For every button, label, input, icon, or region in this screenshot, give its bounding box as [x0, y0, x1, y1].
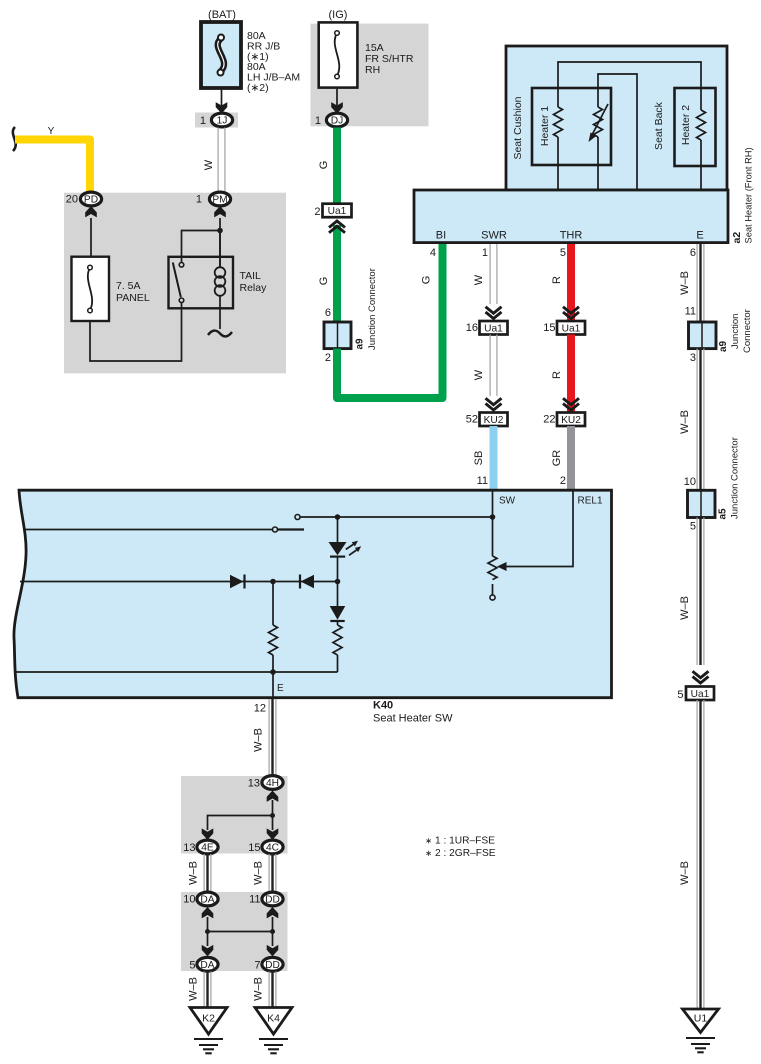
connector PD	[80, 192, 101, 206]
svg-text:2: 2	[560, 475, 566, 487]
svg-text:13: 13	[248, 778, 260, 790]
connector box Ua1 (5)	[686, 687, 714, 701]
wire W SWR to Ua1	[489, 244, 491, 304]
wire W-B 4C to DD	[268, 854, 270, 894]
relay switch blade	[173, 263, 181, 298]
svg-text:W–B: W–B	[679, 410, 691, 434]
svg-text:Junction Connector: Junction Connector	[730, 437, 741, 519]
LED emission arrows	[346, 544, 354, 549]
svg-text:Seat Back: Seat Back	[653, 101, 665, 150]
wire W-B a5 to Ua1	[696, 518, 698, 666]
resistor R1	[269, 625, 278, 655]
svg-text:3: 3	[690, 352, 696, 364]
svg-text:4E: 4E	[201, 843, 214, 854]
wire fuse bottom to relay switch	[90, 302, 182, 361]
svg-text:11: 11	[249, 894, 260, 906]
SECTION H: bottom connectors	[183, 699, 495, 1053]
svg-text:RH: RH	[365, 64, 380, 76]
svg-text:W: W	[473, 369, 485, 380]
svg-text:52: 52	[466, 414, 478, 426]
svg-text:W–B: W–B	[253, 977, 265, 1001]
wire R THR to Ua1	[567, 244, 575, 321]
svg-text:THR: THR	[560, 230, 583, 242]
arrow into 1J	[216, 102, 228, 113]
svg-text:Heater 2: Heater 2	[680, 105, 692, 145]
wire switch feed	[24, 529, 273, 531]
arrow into DD	[267, 907, 279, 918]
junction dot	[270, 813, 275, 818]
wire LED cathode	[337, 557, 339, 582]
svg-text:15: 15	[248, 842, 260, 854]
svg-text:7: 7	[254, 959, 260, 971]
svg-text:Junction: Junction	[730, 314, 741, 349]
svg-text:DJ: DJ	[331, 116, 343, 127]
wire branch to 4E	[208, 816, 273, 831]
wire GR KU2 to K40	[567, 426, 575, 490]
svg-text:W–B: W–B	[679, 861, 691, 885]
svg-text:11: 11	[477, 475, 488, 487]
svg-text:K2: K2	[202, 1013, 215, 1025]
wire PD to PANEL fuse	[90, 218, 92, 257]
break squiggle	[13, 127, 16, 151]
SECTION G: K40 seat heater switch	[14, 490, 612, 724]
svg-text:(IG): (IG)	[329, 9, 348, 21]
wire R Ua1 to KU2	[567, 335, 575, 413]
K40 body with torn left edge	[14, 490, 612, 698]
1J gray strip	[195, 113, 238, 128]
body squiggle	[208, 331, 232, 337]
svg-text:12: 12	[254, 703, 266, 715]
svg-text:PANEL: PANEL	[116, 292, 150, 304]
wire LED anode	[337, 517, 339, 542]
harness chevrons down	[486, 398, 502, 410]
wire E to pin 12	[272, 672, 274, 697]
connector box Ua1 (16)	[480, 321, 508, 335]
relay switch contacts	[179, 263, 184, 268]
svg-text:Heater 1: Heater 1	[539, 106, 551, 146]
svg-text:KU2: KU2	[484, 415, 504, 426]
svg-text:DA: DA	[200, 960, 214, 971]
connector box KU2 (22)	[557, 413, 585, 427]
variable resistor SW	[488, 556, 497, 580]
svg-text:1: 1	[200, 115, 206, 127]
arrow into PD	[85, 206, 97, 217]
wire W-B a9 to a5	[696, 349, 698, 491]
svg-text:22: 22	[543, 414, 555, 426]
svg-text:DD: DD	[265, 895, 280, 906]
junction dot DD	[270, 929, 275, 934]
svg-text:Seat Heater SW: Seat Heater SW	[373, 713, 453, 725]
svg-text:W–B: W–B	[679, 596, 691, 620]
wire below variable resistor	[492, 584, 494, 595]
svg-text:W: W	[473, 274, 485, 285]
connector DD (11)	[262, 892, 283, 906]
ground symbol	[686, 1037, 715, 1039]
svg-text:GR: GR	[551, 450, 563, 467]
svg-text:4H: 4H	[266, 778, 279, 789]
relay coil	[219, 231, 221, 269]
svg-text:4C: 4C	[266, 843, 279, 854]
diode D2	[299, 575, 301, 589]
junction connector a9 box	[324, 322, 351, 349]
svg-text:W–B: W–B	[679, 271, 691, 295]
seat heater upper body	[506, 46, 727, 190]
junction dot diode bus	[270, 579, 276, 585]
LED diode	[329, 542, 347, 555]
svg-text:a2: a2	[731, 232, 743, 244]
svg-text:6: 6	[325, 307, 331, 319]
svg-text:W–B: W–B	[188, 977, 200, 1001]
wire G Ua1 to junction connector a9	[333, 225, 341, 322]
svg-text:SB: SB	[473, 451, 485, 466]
svg-text:G: G	[421, 276, 433, 285]
relay box TAIL	[169, 257, 234, 309]
harness chevrons down	[486, 307, 502, 319]
IG fuse gray box	[311, 24, 429, 127]
connector box Ua1	[323, 204, 352, 218]
svg-text:20: 20	[66, 194, 78, 206]
connector DD (7)	[262, 957, 283, 971]
ground K4 triangle	[255, 1008, 292, 1035]
heater 2 box	[675, 88, 716, 166]
svg-text:W–B: W–B	[253, 861, 265, 885]
svg-text:W–B: W–B	[253, 728, 265, 752]
harness chevrons down	[563, 398, 579, 410]
svg-text:Ua1: Ua1	[328, 206, 347, 217]
svg-text:4: 4	[430, 247, 436, 259]
svg-text:E: E	[277, 683, 284, 694]
svg-text:2: 2	[325, 352, 331, 364]
connector box Ua1 (15)	[557, 321, 585, 335]
connector box KU2 (52)	[480, 413, 508, 427]
connector 1J	[211, 113, 232, 127]
open terminal circle	[490, 595, 495, 600]
wire G a9 to BI	[337, 243, 443, 398]
wire W-B DD to K4	[268, 972, 270, 1009]
SECTION F: right ground column	[677, 244, 753, 1052]
junction dot E	[270, 669, 276, 675]
svg-text:1: 1	[196, 194, 202, 206]
PANEL/TAIL relay gray box	[64, 193, 286, 374]
svg-text:1: 1	[482, 247, 488, 259]
svg-text:Ua1: Ua1	[484, 324, 503, 335]
variable resistor arrow	[497, 562, 507, 571]
svg-text:2: 2	[314, 206, 320, 218]
connector DJ	[326, 113, 347, 127]
variable resistor arrow	[592, 104, 608, 135]
harness chevrons up	[329, 221, 345, 233]
variable resistor	[594, 107, 603, 137]
arrow into PM	[214, 206, 226, 217]
svg-text:11: 11	[685, 306, 696, 318]
wire switch top to coil line	[182, 231, 221, 264]
svg-text:10: 10	[684, 476, 696, 488]
wire switch bus	[300, 516, 493, 518]
fuse symbol 15A	[335, 33, 340, 76]
junction connector a5 box	[688, 490, 716, 517]
SECTION E: middle wires	[466, 244, 585, 490]
connector PM	[209, 192, 230, 206]
wire second bus	[598, 74, 637, 189]
svg-text:SW: SW	[499, 496, 516, 507]
switch blade	[278, 528, 304, 530]
switch pivot circle	[273, 527, 278, 532]
wire 4H to junction	[272, 800, 274, 830]
svg-text:R: R	[551, 276, 563, 284]
svg-text:6: 6	[690, 247, 696, 259]
svg-text:a9: a9	[355, 338, 366, 350]
svg-text:7. 5A: 7. 5A	[116, 280, 141, 292]
resistor heater 2	[697, 110, 706, 140]
svg-text:REL1: REL1	[578, 496, 603, 507]
SECTION D: seat heater block	[414, 46, 754, 244]
ground K2 triangle	[190, 1008, 227, 1035]
junction dot LED column	[335, 514, 341, 520]
fusible link symbol 80A	[218, 39, 224, 72]
wire heater1 resistor to bar	[557, 137, 559, 189]
arrow into DA (5)	[202, 945, 214, 956]
svg-text:5: 5	[690, 521, 696, 533]
SECTION B: top left battery feed	[13, 9, 300, 361]
wire ground bus E	[16, 671, 338, 673]
svg-text:15: 15	[543, 322, 555, 334]
svg-text:Y: Y	[48, 126, 55, 137]
wire W-B E to a9	[696, 244, 698, 322]
svg-text:G: G	[318, 277, 330, 286]
svg-text:KU2: KU2	[561, 415, 581, 426]
wire PM to relay coil	[219, 218, 221, 268]
arrow into DJ	[331, 102, 343, 113]
wire REL1 inside	[506, 491, 573, 567]
svg-text:PD: PD	[84, 195, 98, 206]
wire variable resistor to bar	[597, 137, 599, 189]
svg-text:TAIL: TAIL	[240, 270, 262, 282]
junction connector a9 box (right)	[689, 322, 717, 349]
wire heater2 resistor to bar	[700, 140, 702, 189]
wire to resistor R1	[272, 582, 274, 626]
wire diode bus	[20, 581, 338, 583]
svg-text:10: 10	[183, 894, 195, 906]
svg-text:a5: a5	[718, 508, 729, 520]
connector 4E	[197, 840, 218, 854]
svg-text:1J: 1J	[217, 116, 228, 127]
connector DA (10)	[197, 892, 218, 906]
fusible link box (BAT)	[201, 22, 241, 88]
svg-text:Ua1: Ua1	[562, 324, 581, 335]
svg-text:Seat Heater (Front RH): Seat Heater (Front RH)	[744, 147, 754, 243]
svg-text:13: 13	[183, 842, 195, 854]
harness chevrons down	[563, 307, 579, 319]
svg-text:SWR: SWR	[481, 230, 507, 242]
arrow into 4H	[267, 791, 279, 802]
ground symbol K4	[259, 1038, 288, 1040]
fuse symbol 7.5A	[88, 268, 92, 311]
wire fuse to DJ	[336, 88, 338, 106]
svg-text:1: 1	[315, 115, 321, 127]
svg-text:Seat Cushion: Seat Cushion	[512, 96, 524, 159]
svg-text:∗ 2 : 2GR–FSE: ∗ 2 : 2GR–FSE	[425, 848, 496, 859]
junction dot DA	[205, 929, 210, 934]
junction dot LED cathode	[335, 579, 341, 585]
wire W-B DA to K2	[203, 972, 205, 1009]
fuse box 7.5A PANEL	[72, 257, 110, 321]
wire BAT fuse to 1J	[221, 88, 223, 106]
svg-text:Connector: Connector	[742, 309, 753, 353]
fuse box (IG)	[319, 22, 358, 87]
diode D3	[337, 582, 339, 607]
wire W-B Ua1 to ground U1	[696, 700, 698, 1009]
svg-text:a9: a9	[718, 340, 729, 352]
wire Y yellow	[15, 140, 90, 193]
svg-text:5: 5	[189, 959, 195, 971]
resistor R2	[337, 621, 339, 625]
wire W-B K40 to 4H	[268, 699, 270, 781]
svg-text:U1: U1	[694, 1013, 708, 1025]
svg-text:5: 5	[677, 689, 683, 701]
wire DA-DD junction bus	[207, 917, 209, 946]
junction dot SW column	[490, 514, 496, 520]
connector DA (5)	[197, 957, 218, 971]
diode D1	[230, 575, 244, 588]
svg-text:Ua1: Ua1	[691, 689, 710, 700]
connector 4C	[262, 840, 283, 854]
SECTION C: ignition feed + green wire	[314, 9, 442, 398]
junction dot	[217, 228, 223, 234]
switch contact circle	[295, 515, 300, 520]
wire coil to body squiggle	[219, 296, 221, 330]
seat heater connector bar	[414, 190, 728, 243]
svg-text:Junction Connector: Junction Connector	[367, 268, 378, 350]
svg-text:K4: K4	[267, 1013, 280, 1025]
heater 1 box	[532, 88, 611, 165]
connector 4H	[262, 776, 283, 790]
wire G DJ to Ua1	[333, 128, 341, 204]
wire W Ua1 to KU2	[489, 335, 491, 397]
svg-text:PM: PM	[212, 195, 227, 206]
svg-text:(∗2): (∗2)	[247, 82, 269, 94]
svg-text:5: 5	[560, 247, 566, 259]
svg-text:BI: BI	[436, 230, 446, 242]
resistor heater 1	[554, 107, 563, 137]
svg-text:(BAT): (BAT)	[208, 9, 236, 21]
svg-text:DA: DA	[200, 895, 214, 906]
arrow into DA	[202, 907, 214, 918]
ground U1 triangle	[683, 1009, 719, 1033]
svg-text:K40: K40	[373, 700, 393, 712]
arrow into 4E	[202, 828, 214, 839]
wire top bus	[558, 62, 701, 110]
wire SW inside	[492, 491, 494, 556]
wire W-B 4E to DA	[203, 854, 205, 894]
svg-text:W–B: W–B	[188, 861, 200, 885]
svg-text:16: 16	[466, 322, 478, 334]
svg-text:∗ 1 : 1UR–FSE: ∗ 1 : 1UR–FSE	[425, 836, 495, 847]
bottom connector gray box 2	[181, 892, 288, 971]
harness chevrons down	[693, 671, 709, 683]
svg-text:W: W	[203, 159, 215, 170]
arrow into 4C	[267, 828, 279, 839]
wire W 1J to PM	[217, 128, 219, 193]
svg-text:G: G	[318, 161, 330, 170]
bottom connector gray box 1	[181, 776, 288, 854]
wire SB KU2 to K40	[490, 426, 498, 490]
svg-text:Relay: Relay	[240, 282, 268, 294]
svg-text:R: R	[551, 371, 563, 379]
svg-text:E: E	[696, 230, 703, 242]
arrow into DD (7)	[267, 945, 279, 956]
ground symbol K2	[194, 1038, 223, 1040]
svg-text:DD: DD	[265, 960, 280, 971]
